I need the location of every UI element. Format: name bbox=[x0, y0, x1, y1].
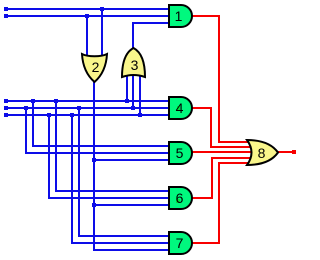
node: bus A junction x=33 bbox=[31, 99, 35, 103]
node: bus A junction x=56 bbox=[54, 99, 58, 103]
node: junction gate2 output at row y=205 bbox=[92, 203, 96, 207]
wire: vertical V1 x=26 from bus B down to row y=153 bbox=[25, 107, 27, 154]
wire: vertical x=102 line1 down to OR gate 2 right input bbox=[101, 8, 103, 57]
wire: gate 2 output vertical x=94 down to row y=250 bbox=[93, 80, 95, 251]
label 6 bbox=[167, 190, 192, 206]
wire: row to gate 6 input 3 y=205 bbox=[93, 204, 170, 206]
node: bus C junction x=140 (gate 3 input 3) bbox=[138, 113, 142, 117]
label 4 bbox=[167, 100, 192, 116]
wire: row to gate 7 input 2 y=243 bbox=[71, 242, 170, 244]
label 5 bbox=[167, 145, 192, 161]
label 4 counter fill bbox=[177, 106, 180, 111]
wire: red gate 5 output to OR 8 input 3 y=152 bbox=[191, 151, 252, 153]
node: bus C junction x=49 bbox=[47, 113, 51, 117]
wire: vertical V4 x=56 from bus A down to row y=191 bbox=[55, 100, 57, 192]
wire: row to gate 7 input 3 y=250 bbox=[93, 249, 170, 251]
input pin A (top line 1) bbox=[4, 7, 8, 11]
wire: row to gate 6 input 1 y=191 bbox=[55, 190, 170, 192]
input pin B (top line 2) bbox=[4, 14, 8, 18]
wire: row to gate 5 input 2 y=153 bbox=[25, 152, 170, 154]
wire: vertical V3 x=49 from bus C down to row y=198 bbox=[48, 114, 50, 199]
wire: red gate 4 vertical x=211 down bbox=[210, 107, 212, 148]
wire: gate 3 input stub x=127 down to bus A bbox=[126, 72, 128, 102]
wire: red into OR 8 input 1 y=142 bbox=[218, 141, 252, 143]
AND gate 7 bbox=[167, 230, 195, 256]
wire: vertical V2 x=33 from bus A down to row y=146 bbox=[32, 100, 34, 147]
wire: vertical V5 x=79 from bus B down to row y=236 bbox=[78, 107, 80, 237]
OR gate 8 (pointing right) bbox=[245, 138, 281, 168]
node: bus B junction x=26 bbox=[24, 106, 28, 110]
wire: gate 3 output horizontal y=23 to gate 1 input 3 bbox=[132, 22, 170, 24]
node: junction on line2 x=87 bbox=[85, 14, 89, 18]
wire: gate 3 output up x=133 bbox=[132, 22, 134, 49]
label 8 bbox=[249, 145, 274, 161]
wire: red gate 6 output horizontal y=198 bbox=[191, 197, 213, 199]
wire: mid bus line A y=101 to gate 4 input 1 bbox=[6, 100, 170, 102]
wire: gate 3 input stub x=133 down to bus B bbox=[132, 72, 134, 109]
AND gate 6 bbox=[167, 185, 195, 211]
wire: red gate 4 output horizontal y=108 bbox=[191, 107, 212, 109]
AND gate 1 bbox=[167, 3, 195, 29]
wire: red gate 6 vertical x=212 up bbox=[211, 157, 213, 199]
wire: red gate 1 vertical x=219 down bbox=[218, 15, 220, 143]
wire: mid bus line C y=115 to gate 4 input 3 bbox=[6, 114, 170, 116]
AND gate 5 bbox=[167, 140, 195, 166]
AND gate 4 bbox=[167, 95, 195, 121]
node: junction gate2 output at row y=160 bbox=[92, 158, 96, 162]
input pin D (mid bus B) bbox=[4, 106, 8, 110]
node: bus B junction x=79 bbox=[77, 106, 81, 110]
wire: red into OR 8 input 5 y=163 bbox=[218, 162, 252, 164]
wire: row to gate 6 input 2 y=198 bbox=[48, 197, 170, 199]
wire: row to gate 5 input 3 y=160 bbox=[93, 159, 170, 161]
wire: red gate 7 output horizontal y=243 bbox=[191, 242, 220, 244]
wire: red gate 1 output horizontal y=16 bbox=[191, 15, 220, 17]
wire: red gate 7 vertical x=219 up bbox=[218, 162, 220, 244]
wire: vertical V6 x=72 from bus C down to row y=243 bbox=[71, 114, 73, 244]
wire: vertical x=87 line2 down to OR gate 2 left input bbox=[86, 15, 88, 57]
label 3 bbox=[122, 57, 147, 73]
output pin (red square) bbox=[292, 150, 296, 154]
wire: row to gate 5 input 1 y=146 bbox=[32, 145, 170, 147]
label 7 bbox=[167, 235, 192, 251]
label 6 counter fill bbox=[176, 199, 180, 203]
node: bus A junction x=127 (gate 3 input 1) bbox=[125, 99, 129, 103]
node: junction on line1 x=102 bbox=[100, 7, 104, 11]
input pin C (mid bus A) bbox=[4, 99, 8, 103]
wire: row to gate 7 input 1 y=236 bbox=[78, 235, 170, 237]
OR gate 3 (pointing up) bbox=[120, 45, 147, 79]
wire: gate 3 input stub x=140 down to bus C bbox=[139, 72, 141, 116]
wire: red OR 8 output y=152 bbox=[277, 151, 293, 153]
input pin E (mid bus C) bbox=[4, 113, 8, 117]
wire: mid bus line B y=108 to gate 4 input 2 bbox=[6, 107, 170, 109]
node: bus C junction x=72 bbox=[70, 113, 74, 117]
wire: top bus line 2 y=16 to gate 1 input 2 bbox=[6, 15, 170, 17]
label 1 bbox=[166, 8, 191, 24]
wire: red into OR 8 input 4 y=158 bbox=[211, 157, 252, 159]
node: bus B junction x=133 (gate 3 input 2) bbox=[131, 106, 135, 110]
label 2 bbox=[83, 59, 108, 75]
OR gate 2 (pointing down) bbox=[80, 50, 109, 84]
wire: top bus line 1 y=9 to gate 1 input 1 bbox=[6, 8, 170, 10]
wire: red into OR 8 input 2 y=147 bbox=[210, 146, 252, 148]
